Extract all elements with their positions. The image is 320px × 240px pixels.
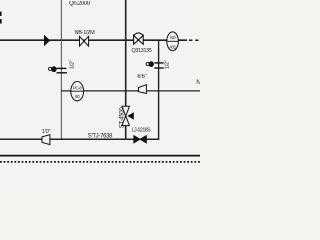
instrument bubble I1 (SD 431) on pipe A	[167, 32, 179, 51]
svg-text:N: N	[196, 79, 200, 86]
wire: vertical branch B	[125, 0, 127, 140]
svg-text:6'6": 6'6"	[137, 74, 146, 80]
svg-text:LJ-0218S: LJ-0218S	[132, 128, 152, 134]
wire: pipe A dashed continuation	[189, 39, 200, 41]
svg-text:1/2": 1/2"	[164, 60, 170, 69]
svg-text:431: 431	[169, 45, 176, 50]
wire: pipe E horizontal	[0, 138, 159, 140]
wire: vertical branch F	[158, 40, 160, 140]
valve V2 (diaphragm valve on pipe A)	[134, 33, 144, 44]
flow arrow on pipe A	[44, 35, 50, 47]
svg-text:ST-4500: ST-4500	[120, 107, 126, 129]
wire: main pipe A horizontal	[0, 39, 187, 41]
svg-text:1/2": 1/2"	[69, 60, 75, 69]
reducer cone on pipe C	[139, 85, 147, 94]
clipped text fragment at left edge (lower)	[0, 19, 2, 23]
valve V4 (closed/filled valve on pipe E)	[134, 136, 147, 144]
relief valve V3 (vertical) on branch B	[122, 106, 134, 125]
border: dotted rule	[0, 161, 200, 163]
svg-text:Qn.2000: Qn.2000	[69, 1, 91, 7]
fitting on branch D (dot + double bars)	[49, 66, 67, 73]
border: solid rule	[0, 155, 200, 157]
wire: vertical branch D	[60, 0, 62, 140]
svg-text:PC-8: PC-8	[73, 85, 82, 90]
fitting on branch F (dot + double bars)	[146, 61, 164, 69]
instrument bubble I2 (PC 60) on pipe C	[71, 82, 84, 101]
clipped text fragment at left edge (upper)	[0, 12, 2, 16]
svg-text:S'TJ-7638: S'TJ-7638	[88, 133, 113, 139]
wire: pipe C horizontal	[61, 90, 200, 92]
svg-text:NB-1/2M: NB-1/2M	[75, 30, 96, 36]
svg-text:1'0": 1'0"	[42, 129, 51, 135]
svg-text:Q313135: Q313135	[131, 48, 151, 54]
svg-text:SD: SD	[170, 35, 176, 40]
reducer cone on pipe E	[42, 135, 50, 145]
valve V1 (gate valve on pipe A)	[80, 36, 89, 46]
